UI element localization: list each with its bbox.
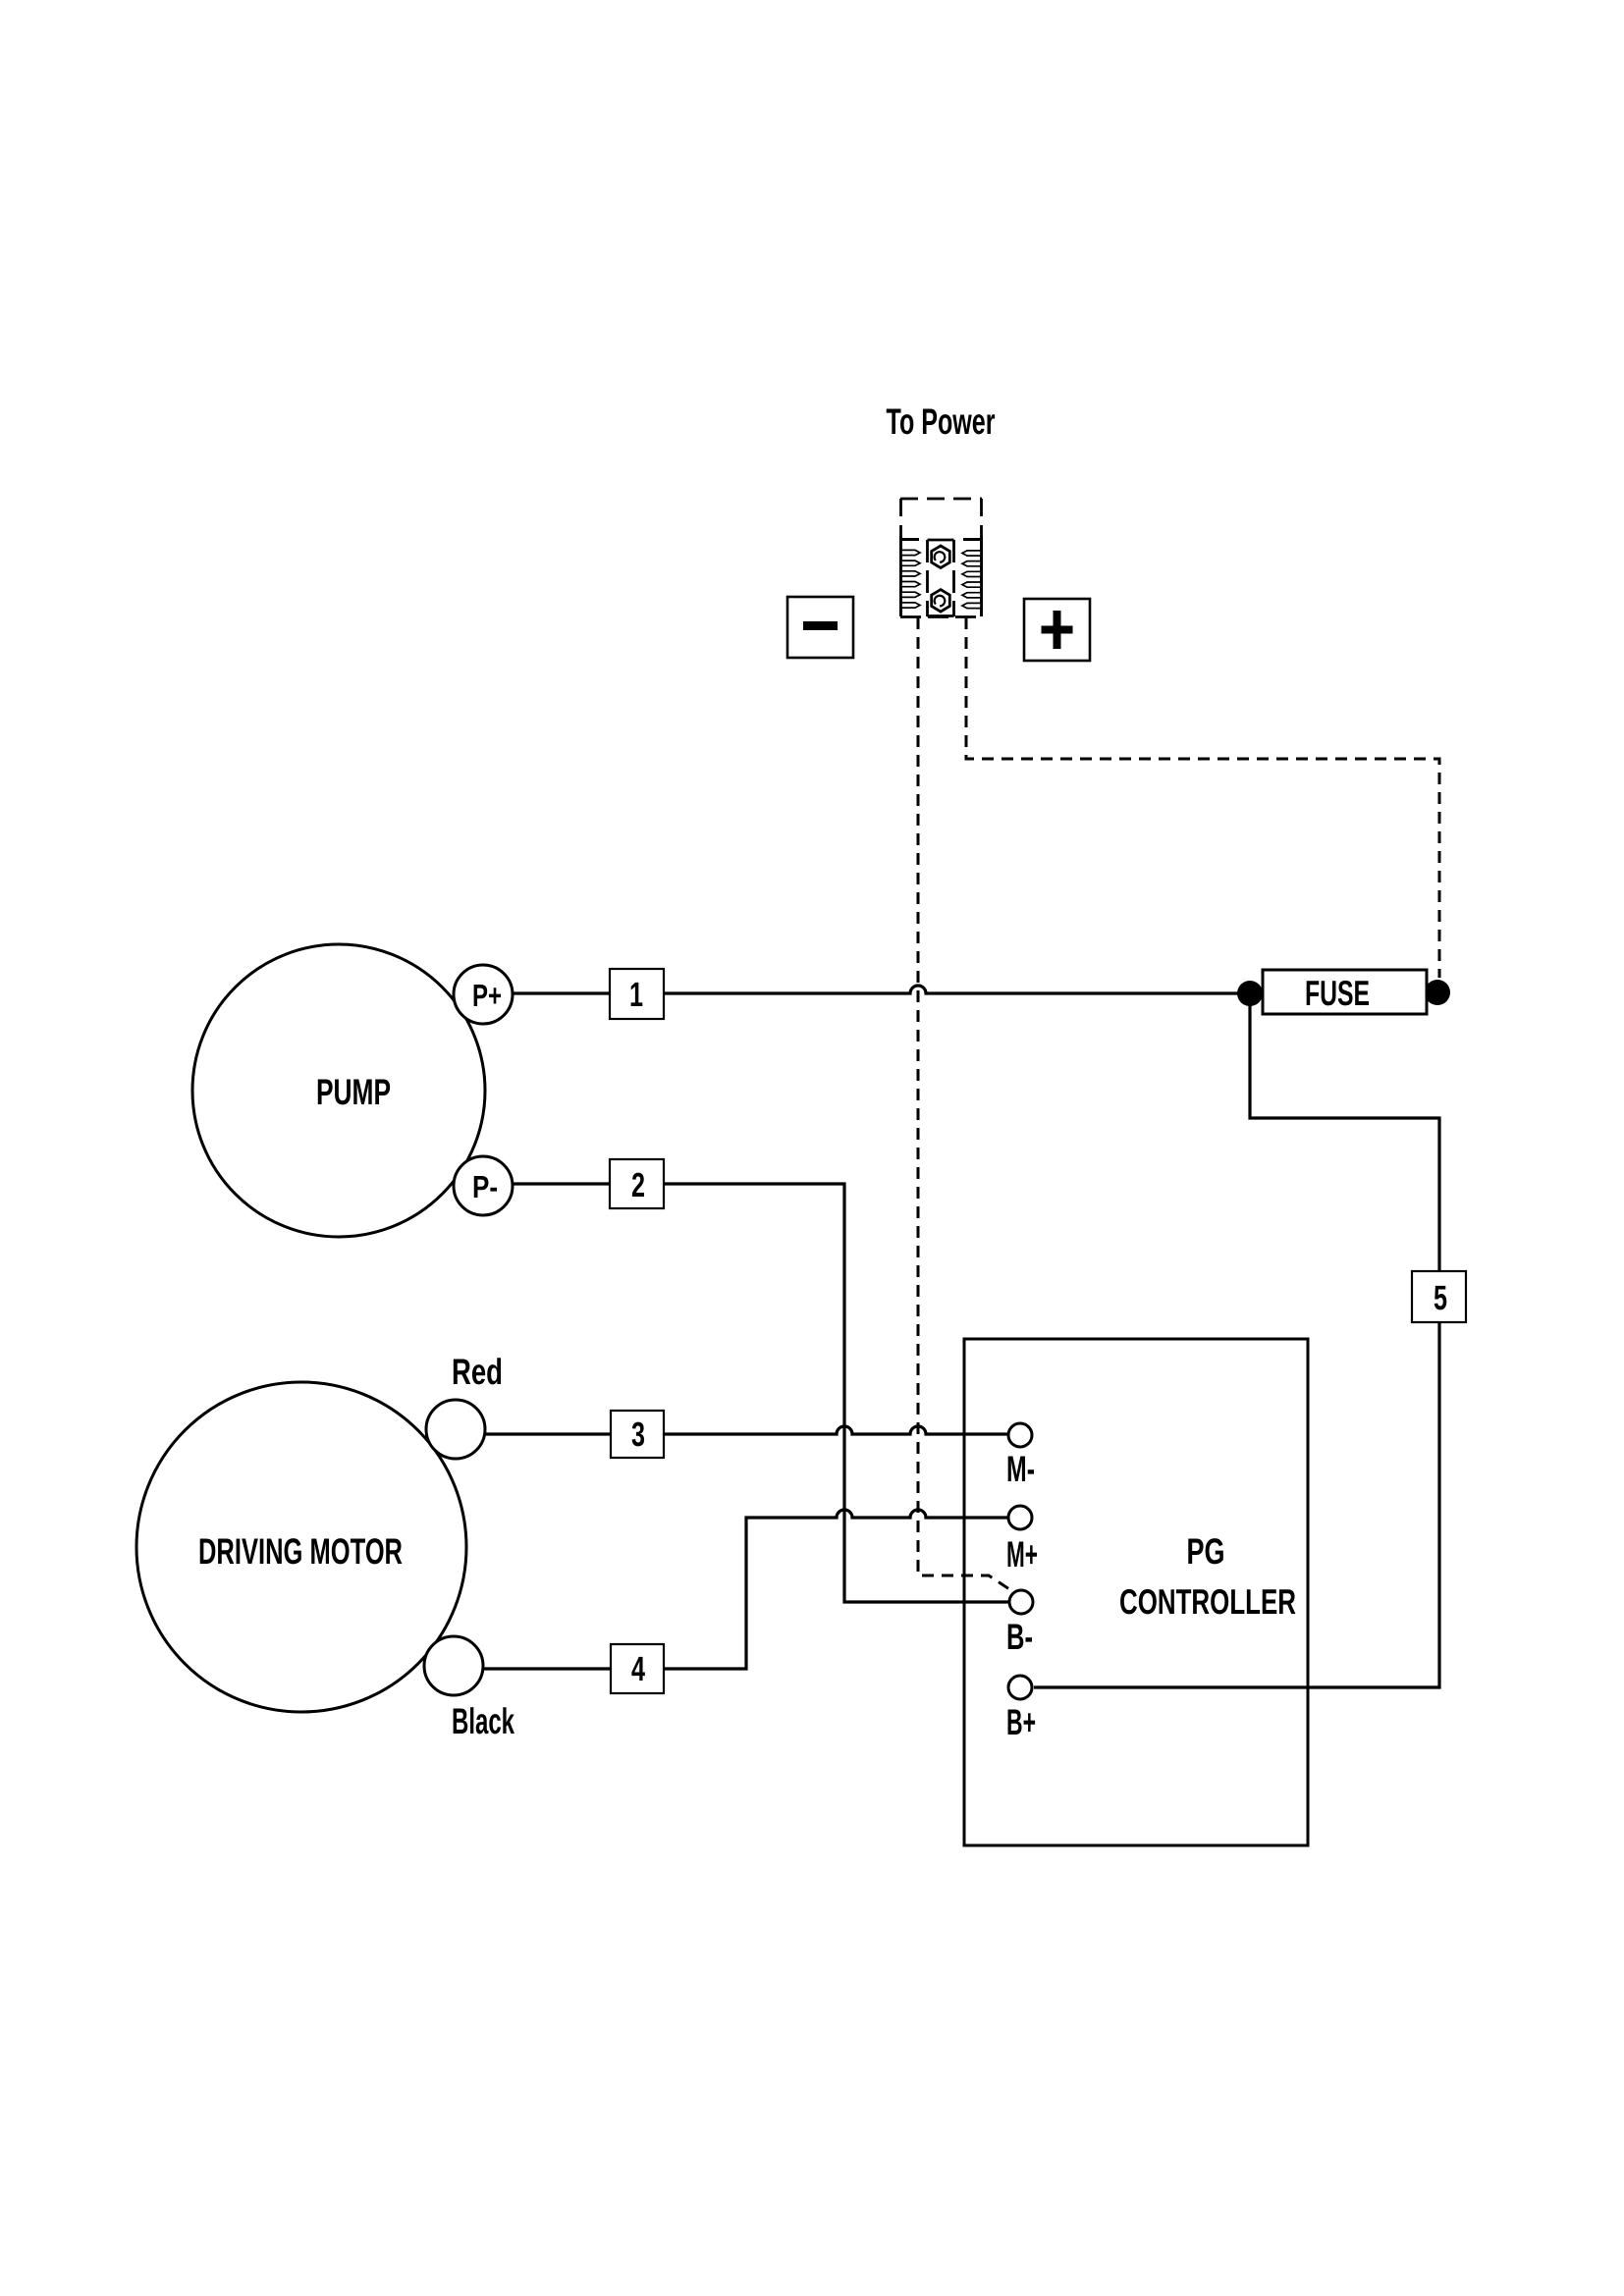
svg-text:4: 4 (631, 1650, 645, 1688)
svg-text:Red: Red (452, 1352, 503, 1392)
svg-text:3: 3 (631, 1415, 645, 1454)
svg-text:P+: P+ (472, 978, 502, 1013)
svg-text:5: 5 (1434, 1279, 1447, 1317)
svg-text:M-: M- (1006, 1449, 1035, 1489)
svg-text:FUSE: FUSE (1305, 973, 1370, 1013)
svg-text:2: 2 (631, 1166, 645, 1204)
svg-text:M+: M+ (1006, 1534, 1038, 1575)
svg-text:Black: Black (452, 1701, 514, 1741)
svg-text:B+: B+ (1006, 1702, 1036, 1742)
svg-text:PG: PG (1187, 1531, 1225, 1572)
svg-text:To Power: To Power (887, 401, 996, 442)
svg-text:PUMP: PUMP (316, 1072, 391, 1112)
svg-text:B-: B- (1006, 1617, 1033, 1657)
svg-text:P-: P- (472, 1169, 498, 1204)
svg-text:CONTROLLER: CONTROLLER (1119, 1581, 1296, 1622)
svg-text:1: 1 (629, 976, 643, 1014)
svg-text:DRIVING MOTOR: DRIVING MOTOR (198, 1531, 403, 1572)
